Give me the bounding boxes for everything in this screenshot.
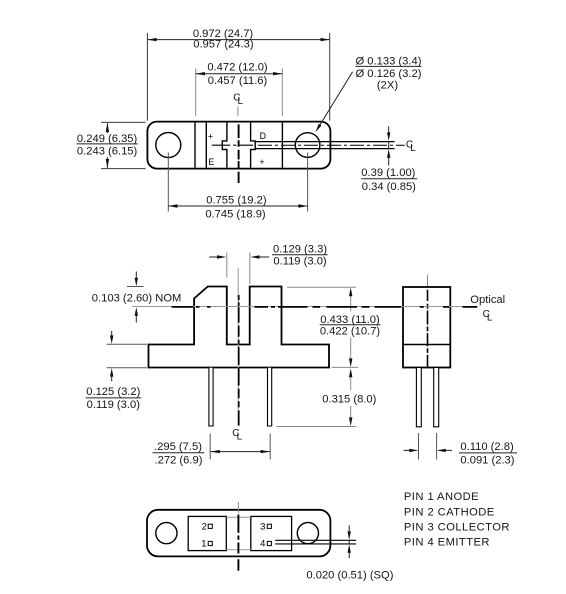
svg-text:0.119 (3.0): 0.119 (3.0): [87, 399, 141, 411]
dimension 0.472/0.457 window span: [196, 61, 283, 116]
svg-text:D: D: [260, 131, 266, 141]
svg-text:4: 4: [260, 539, 265, 550]
front view vertical centerline: [237, 268, 240, 426]
inner parting line 1: [194, 122, 196, 167]
svg-text:0.422 (10.7): 0.422 (10.7): [320, 326, 381, 338]
svg-text:.272 (6.9): .272 (6.9): [155, 454, 203, 466]
svg-text:0.110 (2.8): 0.110 (2.8): [460, 441, 514, 453]
svg-text:0.457 (11.6): 0.457 (11.6): [208, 75, 268, 87]
top view horizontal centerline: [212, 144, 405, 146]
label D: [260, 131, 266, 141]
svg-text:PIN 3 COLLECTOR: PIN 3 COLLECTOR: [404, 522, 510, 534]
dimension 0.39/0.34 lead width (top view): [361, 126, 417, 193]
svg-text:1: 1: [201, 539, 206, 550]
svg-text:0.119 (3.0): 0.119 (3.0): [273, 256, 327, 268]
slot wall right with aperture tab: [251, 122, 256, 167]
side view left lead: [416, 368, 421, 427]
svg-text:2: 2: [202, 521, 207, 532]
svg-text:Ø 0.126 (3.2): Ø 0.126 (3.2): [356, 68, 422, 80]
pin 2 label: [202, 521, 213, 532]
lead pair seen edge-on (top view): [255, 142, 394, 149]
svg-text:0.020 (0.51) (SQ): 0.020 (0.51) (SQ): [306, 569, 393, 581]
svg-text:0.315 (8.0): 0.315 (8.0): [322, 393, 376, 405]
svg-text:0.472 (12.0): 0.472 (12.0): [207, 61, 268, 73]
centerline symbol right of leads: [406, 139, 416, 154]
svg-text:0.091 (2.3): 0.091 (2.3): [460, 454, 514, 466]
svg-text:PIN 1 ANODE: PIN 1 ANODE: [404, 491, 479, 503]
svg-text:3: 3: [260, 521, 265, 532]
pin 4 label: [260, 539, 271, 550]
svg-text:.295 (7.5): .295 (7.5): [154, 441, 202, 453]
dimension 0.249/0.243 body height: [77, 122, 146, 168]
svg-text:0.125 (3.2): 0.125 (3.2): [86, 386, 140, 398]
label + (emitter polarity): [208, 132, 213, 142]
front view right lead: [268, 368, 272, 426]
optical axis centerline: [132, 306, 477, 308]
svg-text:PIN 4 EMITTER: PIN 4 EMITTER: [404, 536, 490, 548]
svg-text:Ø 0.133 (3.4): Ø 0.133 (3.4): [356, 55, 422, 67]
dimension 0.433/0.422 overall height: [287, 287, 380, 367]
dimension 0.103 NOM tower top to optical axis: [92, 272, 182, 323]
slot wall left with aperture tab: [222, 122, 227, 167]
side view body outline: [403, 287, 450, 368]
centerline symbol above top view: [233, 92, 243, 116]
bottom view vertical centerline: [237, 502, 239, 571]
dimension 0.129/0.119 slot width: [209, 243, 327, 284]
svg-text:+: +: [259, 157, 264, 167]
hole diameter callout 0.133/0.126 (2X): [315, 55, 421, 132]
dimension 0.125/0.119 base thickness: [86, 331, 147, 411]
svg-text:+: +: [208, 132, 213, 142]
svg-text:0.34 (0.85): 0.34 (0.85): [362, 181, 416, 193]
top view body outline: [147, 122, 330, 169]
svg-text:0.39 (1.00): 0.39 (1.00): [361, 167, 415, 179]
svg-text:0.745 (18.9): 0.745 (18.9): [205, 209, 266, 221]
Optical centerline label: [470, 294, 505, 324]
side view vertical centerline: [427, 275, 429, 367]
dimension 0.315 lead length: [277, 368, 377, 426]
inner parting line 3: [281, 122, 283, 167]
svg-text:E: E: [208, 157, 214, 167]
svg-text:L: L: [237, 432, 243, 443]
svg-text:0.433 (11.0): 0.433 (11.0): [320, 314, 380, 326]
bottom view hole right: [297, 523, 318, 544]
pin 3 label: [260, 521, 271, 532]
svg-text:(2X): (2X): [377, 80, 398, 92]
svg-text:L: L: [410, 143, 416, 154]
bridge lines between blocks: [226, 517, 251, 550]
inner parting line 2: [205, 122, 207, 167]
dimension 0.110/0.091 lead pitch (side view): [404, 433, 517, 466]
svg-text:L: L: [238, 96, 244, 107]
dimension 0.020 SQ lead cross-section: [306, 525, 393, 581]
bottom view hole left: [156, 523, 177, 544]
svg-text:L: L: [487, 313, 493, 324]
svg-text:0.243 (6.15): 0.243 (6.15): [77, 145, 138, 157]
detector block (pins 3,4): [251, 516, 292, 550]
bottom view body outline: [147, 510, 330, 557]
front view left lead: [209, 368, 213, 426]
front view body outline: [149, 287, 330, 368]
dimension 0.755/0.745 hole spacing: [168, 153, 307, 221]
mounting hole right: [295, 133, 320, 158]
mounting hole left: [156, 133, 181, 158]
side view base parting line: [403, 344, 450, 346]
svg-text:0.103 (2.60) NOM: 0.103 (2.60) NOM: [92, 292, 182, 304]
pin function list: [404, 491, 510, 548]
label E: [208, 157, 214, 167]
pin 4 lead lines (bottom view): [275, 540, 356, 544]
svg-text:PIN 2 CATHODE: PIN 2 CATHODE: [404, 506, 495, 518]
side view right lead: [434, 368, 439, 427]
svg-text:Optical: Optical: [470, 294, 505, 306]
top view vertical centerline (dashed): [238, 124, 240, 183]
svg-text:0.129 (3.3): 0.129 (3.3): [273, 243, 327, 255]
dimension 0.972/0.957 overall width: [147, 28, 329, 120]
emitter block (pins 1,2): [188, 516, 226, 550]
centerline symbol below front view: [232, 428, 242, 443]
label + (detector polarity): [259, 157, 264, 167]
dimension .295/.272 lead spacing: [153, 434, 271, 467]
svg-text:0.957 (24.3): 0.957 (24.3): [193, 39, 254, 51]
svg-text:0.755 (19.2): 0.755 (19.2): [206, 194, 267, 206]
pin 1 label: [201, 539, 212, 550]
svg-text:0.249 (6.35): 0.249 (6.35): [77, 133, 138, 145]
